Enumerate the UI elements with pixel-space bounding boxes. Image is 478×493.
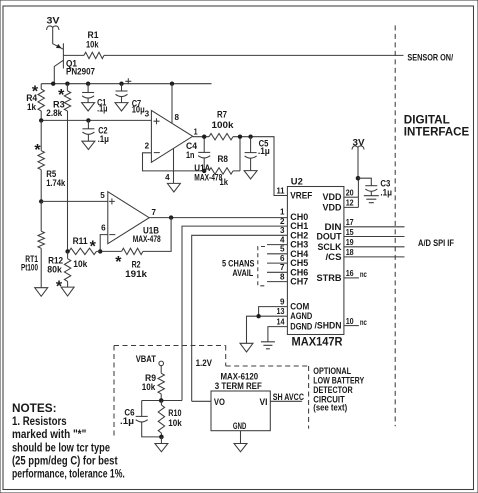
svg-text:*: * bbox=[32, 84, 39, 101]
svg-text:marked with "*": marked with "*" bbox=[12, 429, 86, 441]
resistor RT1 Pt100 bbox=[21, 201, 44, 287]
svg-text:DETECTOR: DETECTOR bbox=[313, 385, 353, 395]
svg-text:SH AVCC: SH AVCC bbox=[273, 392, 305, 402]
capacitor C4 bbox=[186, 135, 210, 174]
svg-text:5: 5 bbox=[280, 245, 285, 254]
svg-text:VBAT: VBAT bbox=[136, 354, 157, 364]
svg-text:VDD: VDD bbox=[323, 192, 342, 202]
resistor R3 bbox=[46, 84, 70, 118]
svg-text:VO: VO bbox=[214, 397, 225, 407]
node DIGITAL INTERFACE label bbox=[404, 114, 470, 138]
ground AGND bbox=[240, 343, 253, 352]
wire bus to U1A pin3 bbox=[41, 119, 151, 121]
pin 14 DGND bbox=[268, 317, 313, 341]
svg-text:3: 3 bbox=[145, 110, 150, 119]
wire U1B pin6 bbox=[100, 235, 108, 252]
resistor R7 bbox=[209, 110, 235, 140]
op-amp U1B bbox=[100, 191, 160, 244]
node A/D SPI IF bbox=[418, 238, 454, 248]
wire CH1 from battery divider bbox=[182, 226, 287, 400]
svg-text:2.8k: 2.8k bbox=[46, 108, 63, 118]
svg-text:*: * bbox=[90, 239, 97, 256]
svg-text:6: 6 bbox=[101, 224, 106, 233]
svg-text:(see text): (see text) bbox=[313, 403, 347, 413]
svg-text:8: 8 bbox=[175, 113, 180, 122]
svg-text:10k: 10k bbox=[73, 259, 88, 269]
svg-text:.1μ: .1μ bbox=[380, 187, 392, 197]
pin 5 CH4 bbox=[267, 245, 308, 259]
pin 9 COM bbox=[259, 297, 310, 316]
svg-text:1. Resistors: 1. Resistors bbox=[12, 416, 67, 428]
node NOTES text bbox=[12, 403, 125, 481]
svg-text:*: * bbox=[58, 87, 65, 104]
svg-text:R8: R8 bbox=[218, 154, 229, 164]
capacitor C3 bbox=[358, 178, 392, 197]
pin 20 VDD bbox=[323, 189, 359, 203]
svg-text:R1: R1 bbox=[88, 30, 99, 40]
pin 2 CH1 bbox=[280, 217, 308, 231]
svg-text:1.74k: 1.74k bbox=[46, 178, 66, 188]
pin 12 VDD bbox=[323, 178, 359, 212]
wire U1A pin8 to rail bbox=[171, 84, 173, 124]
svg-text:16: 16 bbox=[346, 269, 354, 278]
3V supply (right) bbox=[352, 138, 365, 181]
node rail junctions bbox=[51, 82, 174, 86]
svg-text:15: 15 bbox=[346, 228, 354, 237]
ground RT1 bbox=[35, 288, 48, 297]
capacitor C7 bbox=[116, 78, 145, 114]
svg-text:.1μ: .1μ bbox=[98, 134, 109, 144]
svg-text:U2: U2 bbox=[291, 177, 303, 187]
svg-text:19: 19 bbox=[346, 238, 354, 247]
svg-text:performance, tolerance 1%.: performance, tolerance 1%. bbox=[12, 469, 125, 481]
pin 19 SCLK bbox=[318, 238, 405, 252]
svg-text:NOTES:: NOTES: bbox=[12, 403, 57, 415]
svg-text:Pt100: Pt100 bbox=[21, 263, 38, 273]
wire R3 column down to R11 bbox=[67, 111, 69, 251]
capacitor C1 bbox=[82, 84, 107, 114]
pin 4 CH3 bbox=[267, 235, 308, 249]
resistor R4 bbox=[26, 84, 44, 121]
svg-text:12: 12 bbox=[346, 199, 354, 208]
node R5/RT1 junction bbox=[39, 199, 43, 203]
ground R10 bbox=[155, 444, 168, 452]
svg-text:17: 17 bbox=[346, 218, 354, 227]
svg-text:R11: R11 bbox=[73, 236, 88, 246]
svg-text:DGND: DGND bbox=[290, 322, 312, 332]
wire feedback down bbox=[143, 218, 171, 252]
IC MAX-6120 3 TERM REF bbox=[211, 372, 270, 432]
node OPTIONAL label bbox=[313, 366, 364, 413]
svg-text:13: 13 bbox=[277, 307, 285, 316]
svg-text:MAX147R: MAX147R bbox=[292, 335, 343, 349]
wire analog rail bbox=[41, 83, 211, 85]
svg-text:2: 2 bbox=[280, 217, 285, 226]
wire U1A pin4 bbox=[173, 148, 175, 183]
svg-text:nc: nc bbox=[360, 270, 367, 279]
svg-text:20: 20 bbox=[346, 189, 354, 198]
pin 7 CH6 bbox=[267, 263, 308, 277]
pin 8 CH7 bbox=[267, 272, 308, 286]
svg-text:5: 5 bbox=[100, 191, 105, 200]
node C6/R10 ground junction bbox=[159, 435, 164, 444]
resistor R8 bbox=[209, 137, 240, 187]
capacitor C5 bbox=[245, 137, 270, 171]
wire R1 to sensor line bbox=[104, 54, 404, 56]
svg-text:.1μ: .1μ bbox=[120, 416, 134, 426]
svg-text:CH7: CH7 bbox=[290, 277, 308, 287]
pin 15 DOUT bbox=[317, 228, 405, 242]
svg-text:.1μ: .1μ bbox=[258, 146, 270, 156]
svg-text:80k: 80k bbox=[47, 265, 63, 275]
resistor R9 bbox=[142, 373, 165, 401]
svg-text:AVAIL: AVAIL bbox=[232, 268, 253, 278]
svg-text:*: * bbox=[34, 142, 41, 159]
wire digital interface dashed line bbox=[394, 25, 396, 426]
IC U2 MAX147R box bbox=[287, 177, 344, 349]
wire 3V to Q1 emitter bbox=[53, 28, 64, 50]
wire MAX-6120 VO output bbox=[192, 400, 211, 402]
svg-text:3 TERM REF: 3 TERM REF bbox=[215, 381, 262, 391]
resistor R1 bbox=[84, 30, 104, 59]
ground MAX-6120 bbox=[234, 444, 247, 452]
resistor R5 bbox=[34, 120, 66, 201]
op-amp U1A bbox=[145, 110, 223, 183]
ground C1 bbox=[82, 103, 95, 111]
wire MAX-6120 VI to AVCC bbox=[270, 392, 304, 402]
pin 18 /CS bbox=[326, 248, 405, 262]
svg-text:1.2V: 1.2V bbox=[196, 358, 212, 368]
svg-text:7: 7 bbox=[152, 208, 157, 217]
wire optional circuit dashed boundary bbox=[114, 346, 309, 439]
svg-text:COM: COM bbox=[290, 302, 309, 312]
svg-text:should be low tcr type: should be low tcr type bbox=[12, 442, 110, 454]
svg-text:VREF: VREF bbox=[290, 191, 312, 201]
svg-text:A/D SPI IF: A/D SPI IF bbox=[418, 238, 454, 248]
svg-text:VI: VI bbox=[260, 397, 268, 407]
svg-text:191k: 191k bbox=[125, 269, 148, 279]
svg-text:2: 2 bbox=[145, 142, 150, 151]
wire Q1 base bbox=[63, 54, 84, 56]
wire CH2 from 1.2V reference bbox=[192, 235, 288, 401]
node battery divider junction bbox=[142, 398, 182, 403]
svg-text:1n: 1n bbox=[186, 150, 195, 160]
pin 13 AGND bbox=[247, 307, 313, 343]
svg-text:10k: 10k bbox=[168, 418, 182, 428]
svg-text:18: 18 bbox=[346, 248, 354, 257]
node 1.2V label bbox=[196, 358, 212, 368]
ground C5 bbox=[244, 171, 257, 179]
svg-text:/SHDN: /SHDN bbox=[315, 321, 342, 331]
wire R7 out to VREF bbox=[233, 135, 287, 196]
pin 16 STRB nc bbox=[317, 269, 368, 283]
svg-text:4: 4 bbox=[280, 235, 285, 244]
svg-text:DOUT: DOUT bbox=[317, 232, 342, 242]
node SENSOR ON/ bbox=[407, 52, 453, 62]
svg-text:10μ: 10μ bbox=[132, 105, 145, 115]
svg-text:11: 11 bbox=[277, 186, 286, 195]
svg-text:10k: 10k bbox=[142, 382, 156, 392]
node VBAT terminal bbox=[136, 354, 164, 373]
ground C3 earth bbox=[364, 196, 379, 203]
ground C2 bbox=[82, 141, 95, 149]
pin 17 DIN bbox=[325, 218, 405, 232]
resistor R11 bbox=[68, 236, 101, 269]
svg-text:VDD: VDD bbox=[323, 202, 342, 212]
capacitor C6 bbox=[120, 401, 161, 437]
resistor R12 bbox=[47, 251, 70, 295]
svg-text:STRB: STRB bbox=[317, 273, 343, 283]
svg-text:(25 ppm/deg C) for best: (25 ppm/deg C) for best bbox=[12, 455, 118, 467]
pin 3 CH2 bbox=[280, 226, 308, 240]
transistor Q1 PN2907 bbox=[54, 43, 95, 83]
3V supply (top left) bbox=[47, 16, 60, 31]
wire MAX-6120 GND bbox=[240, 431, 242, 444]
wire U1A output bbox=[193, 136, 209, 138]
svg-text:6: 6 bbox=[280, 254, 285, 263]
wire U1A pin2 feedback bbox=[143, 153, 205, 171]
pin 10 /SHDN nc bbox=[315, 317, 368, 331]
svg-text:8: 8 bbox=[280, 272, 285, 281]
svg-text:.1μ: .1μ bbox=[97, 104, 107, 114]
svg-text:OPTIONAL: OPTIONAL bbox=[313, 366, 351, 376]
svg-text:SENSOR ON/: SENSOR ON/ bbox=[407, 52, 453, 62]
svg-text:GND: GND bbox=[233, 421, 247, 431]
svg-text:1: 1 bbox=[194, 127, 198, 136]
svg-text:SCLK: SCLK bbox=[318, 242, 342, 252]
svg-text:10: 10 bbox=[346, 317, 354, 326]
svg-text:14: 14 bbox=[277, 317, 285, 326]
svg-text:/CS: /CS bbox=[326, 252, 342, 262]
node R11/R3/R12 junction bbox=[65, 249, 69, 253]
svg-text:10k: 10k bbox=[86, 40, 99, 50]
wire R5 node to U1B pin5 bbox=[41, 200, 108, 202]
wire U1B output to CH0 bbox=[149, 215, 287, 219]
svg-text:1k: 1k bbox=[220, 177, 229, 187]
svg-text:DIN: DIN bbox=[325, 222, 342, 232]
resistor R10 bbox=[158, 401, 182, 437]
svg-text:INTERFACE: INTERFACE bbox=[404, 126, 470, 138]
node 5 chans avail bracket bbox=[222, 247, 267, 286]
svg-text:AGND: AGND bbox=[290, 311, 312, 321]
svg-text:PN2907: PN2907 bbox=[66, 67, 95, 77]
svg-text:100k: 100k bbox=[212, 120, 235, 130]
pin 6 CH5 bbox=[267, 254, 308, 268]
pin 1 CH0 bbox=[280, 208, 308, 222]
node bus junctions bbox=[39, 118, 91, 122]
ground R12 bbox=[61, 287, 74, 296]
node U1B pin6 junction bbox=[98, 249, 102, 253]
svg-text:*: * bbox=[115, 254, 122, 271]
resistor R2 bbox=[100, 248, 148, 279]
svg-text:1k: 1k bbox=[27, 102, 37, 112]
svg-text:3: 3 bbox=[280, 226, 285, 235]
svg-text:1: 1 bbox=[280, 208, 285, 217]
svg-text:3V: 3V bbox=[47, 16, 60, 26]
svg-text:DIGITAL: DIGITAL bbox=[404, 114, 450, 126]
svg-text:MAX-478: MAX-478 bbox=[194, 172, 222, 182]
svg-text:4: 4 bbox=[165, 173, 170, 182]
capacitor C2 bbox=[82, 120, 109, 144]
svg-text:7: 7 bbox=[280, 263, 285, 272]
svg-text:R10: R10 bbox=[168, 408, 181, 418]
svg-text:9: 9 bbox=[280, 297, 285, 306]
ground C7 bbox=[115, 103, 128, 111]
svg-text:R7: R7 bbox=[217, 110, 227, 120]
svg-text:nc: nc bbox=[360, 318, 367, 327]
svg-text:MAX-478: MAX-478 bbox=[133, 234, 161, 244]
ground DGND earth bbox=[261, 342, 275, 349]
ground U1A pin4 bbox=[167, 183, 180, 192]
pin 11 VREF bbox=[277, 186, 313, 200]
